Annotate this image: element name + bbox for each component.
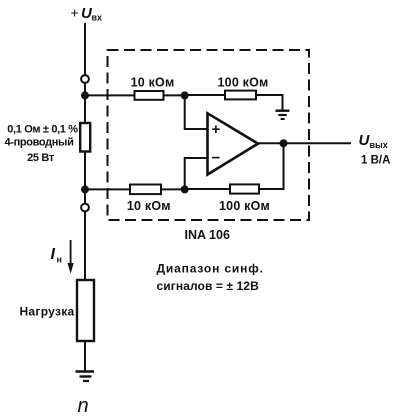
- junction output node: [280, 139, 288, 147]
- load Нагрузка (box): [77, 280, 94, 341]
- ground (main, bottom): [76, 372, 95, 382]
- wire R4 up to output node: [259, 143, 284, 189]
- wire R3 to ground: [256, 95, 283, 110]
- svg-text:сигналов = ± 12В: сигналов = ± 12В: [157, 279, 260, 293]
- svg-text:100 кОм: 100 кОм: [219, 199, 270, 213]
- wire shunt bottom to lower terminal: [84, 152, 86, 204]
- wire node C to resistor R4: [185, 188, 230, 190]
- dashed boundary box of INA106: [108, 50, 310, 220]
- wire R1 to node B: [164, 94, 185, 96]
- resistor R2 10 кОм (bottom input): [130, 185, 161, 195]
- svg-text:10 кОм: 10 кОм: [131, 76, 175, 90]
- svg-text:n: n: [78, 395, 89, 417]
- svg-text:+: +: [212, 121, 221, 138]
- wire node C up to op-amp inverting input: [185, 158, 208, 189]
- resistor R3 100 кОм (top, to ground): [225, 91, 256, 100]
- svg-text:INA 106: INA 106: [185, 228, 230, 242]
- svg-text:Диапазон синф.: Диапазон синф.: [157, 262, 264, 276]
- junction node D (shunt bottom / R2): [81, 185, 89, 193]
- svg-text:вых: вых: [370, 140, 388, 150]
- svg-text:н: н: [57, 255, 62, 265]
- note: common-mode range text: [157, 262, 264, 294]
- wire from upper terminal down to shunt resistor: [84, 83, 86, 123]
- svg-text:Нагрузка: Нагрузка: [19, 305, 74, 319]
- svg-text:I: I: [51, 246, 56, 263]
- wire lower terminal down to load: [84, 212, 86, 280]
- wire lower sense node D to resistor R2: [85, 188, 130, 190]
- wire node B to resistor R3: [185, 94, 225, 96]
- resistor R1 10 кОм (top input): [135, 91, 164, 100]
- terminal lower sense (open circle): [81, 204, 89, 212]
- svg-text:вх: вх: [92, 13, 103, 23]
- shunt resistor R5 0,1 Ом (current sense): [80, 123, 90, 152]
- junction node C (op-amp - input net): [181, 185, 189, 193]
- svg-text:100 кОм: 100 кОм: [218, 76, 269, 90]
- wire from +Uвх down to upper sense terminal: [84, 23, 86, 75]
- ground (reference for R3, inside box): [276, 111, 290, 119]
- svg-text:10 кОм: 10 кОм: [127, 199, 171, 213]
- label Iн (load current): [51, 246, 62, 265]
- svg-text:1 В/А: 1 В/А: [361, 155, 390, 167]
- svg-text:−: −: [212, 150, 221, 167]
- wire op-amp output to Uвых terminal: [258, 142, 351, 144]
- wire load bottom to ground: [84, 341, 86, 371]
- terminal upper sense (open circle): [81, 75, 89, 83]
- node +Uвх (input supply terminal label): [71, 5, 103, 23]
- svg-text:25 Вт: 25 Вт: [27, 152, 55, 164]
- wire R2 to node C: [161, 188, 185, 190]
- junction node A (shunt top / R1): [81, 91, 89, 99]
- wire node A to resistor R1: [85, 94, 135, 96]
- value label R5: 0,1 Ом ± 0,1 % / 4-проводный / 25 Вт: [5, 124, 79, 165]
- wire node B down to op-amp noninverting input: [185, 95, 208, 129]
- junction node B (op-amp + input net): [181, 91, 189, 99]
- node Uвых output label (1 В/А): [359, 132, 391, 167]
- current arrow Iн: [68, 240, 74, 274]
- svg-text:+: +: [71, 5, 79, 21]
- op-amp U1 INA106 (triangle with + and - pins): [208, 113, 259, 174]
- svg-text:4-проводный: 4-проводный: [5, 136, 74, 148]
- svg-text:0,1 Ом ± 0,1 %: 0,1 Ом ± 0,1 %: [7, 124, 78, 136]
- resistor R4 100 кОм (feedback): [230, 184, 259, 193]
